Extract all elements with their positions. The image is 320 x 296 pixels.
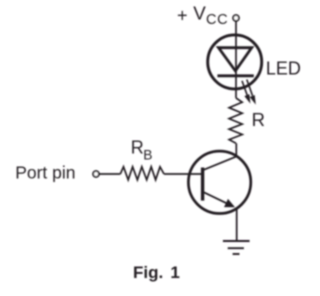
svg-text:1: 1 [170,263,179,282]
svg-text:CC: CC [206,12,228,28]
svg-text:LED: LED [266,58,301,78]
svg-text:+: + [177,5,188,25]
svg-text:V: V [193,2,206,23]
svg-text:R: R [252,109,265,130]
svg-text:Fig.: Fig. [133,263,163,282]
svg-text:B: B [143,147,152,162]
svg-text:Port pin: Port pin [15,163,75,183]
svg-text:R: R [131,137,144,157]
